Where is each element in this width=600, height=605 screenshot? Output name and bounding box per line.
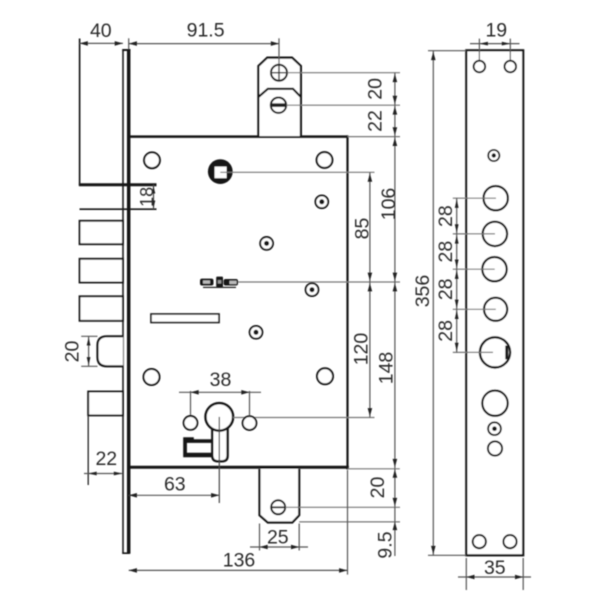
plate screw bottom [488, 422, 501, 435]
plate bottom hole right [503, 535, 516, 548]
svg-text:9.5: 9.5 [375, 531, 397, 558]
dimension 40 [80, 20, 123, 46]
dimension 120 [350, 282, 372, 418]
svg-text:22: 22 [95, 448, 117, 470]
dimension 20 (tab screws) [364, 73, 397, 106]
latch bolt [98, 336, 123, 366]
stop slot [151, 314, 219, 323]
dimension 85 [352, 172, 374, 282]
dimension 91.5 [129, 20, 279, 50]
deadbolt tooth 2 [80, 259, 123, 283]
upper guard block left edge [79, 39, 81, 186]
plate small hole [488, 441, 502, 455]
dimension 28 (1) [435, 198, 459, 234]
lock case outline [127, 135, 349, 469]
svg-text:22: 22 [364, 110, 386, 132]
auxiliary block [88, 392, 123, 416]
svg-text:20: 20 [367, 477, 389, 499]
upper guard block bottom thick line [79, 183, 157, 186]
screw B [260, 237, 273, 250]
plate hole 3 [482, 257, 506, 281]
bottom mounting tab [260, 469, 300, 523]
top tab screw with horizontal slot [271, 98, 286, 113]
svg-text:20: 20 [61, 341, 83, 363]
svg-text:85: 85 [352, 218, 374, 240]
dimension 20 (latch) [61, 336, 97, 366]
cylinder fixing screw right [243, 416, 257, 430]
dimension 106 [378, 137, 400, 282]
plate bottom hole left [473, 535, 486, 548]
plate screw top [488, 150, 499, 161]
auxiliary block edge extension [87, 415, 89, 485]
dimension 20 (case to tab screw) [367, 468, 397, 507]
top tab screw with cross slot [271, 38, 287, 81]
svg-text:40: 40 [90, 20, 112, 42]
svg-text:28: 28 [435, 205, 457, 227]
svg-text:136: 136 [223, 550, 256, 572]
cylinder centerline [218, 417, 220, 503]
hole bottom-right [317, 368, 333, 384]
svg-text:25: 25 [267, 527, 289, 549]
svg-text:63: 63 [164, 474, 186, 496]
clutch lever [200, 277, 238, 288]
svg-text:18: 18 [137, 187, 157, 207]
hole bottom-left [144, 369, 160, 385]
svg-text:35: 35 [484, 557, 506, 579]
svg-text:120: 120 [350, 333, 372, 366]
square spindle follower [208, 159, 233, 184]
extension line from slotted screw [286, 104, 400, 106]
screw A [315, 195, 328, 208]
svg-text:28: 28 [435, 241, 457, 263]
dimension 148 [375, 282, 397, 468]
dimension 38 [179, 369, 261, 416]
dimension 18 [137, 185, 157, 210]
svg-text:19: 19 [485, 19, 507, 41]
svg-text:20: 20 [364, 78, 386, 100]
dimension 28 (4) [435, 309, 459, 352]
dimension 22 (left) [84, 448, 122, 475]
hole top-left [144, 152, 160, 168]
svg-text:28: 28 [435, 320, 457, 342]
plate top hole left [474, 61, 486, 73]
svg-text:148: 148 [375, 352, 397, 385]
svg-text:91.5: 91.5 [187, 20, 225, 42]
plate hole 5 [482, 391, 507, 416]
screw C [306, 283, 319, 296]
cylinder cam bracket [183, 437, 213, 457]
extension line case top [348, 136, 401, 138]
plate hole 1 [484, 186, 508, 210]
hole top-right [317, 152, 333, 168]
dimension 136 [129, 470, 348, 575]
dimension 25 [250, 524, 308, 551]
extension line from cylinder [233, 417, 375, 419]
svg-text:106: 106 [378, 188, 400, 221]
extension line from follower [220, 171, 374, 173]
top mounting tab [258, 58, 301, 136]
plate hole 4 [484, 298, 507, 321]
extension line from bottom tab lower edge [299, 521, 400, 523]
plate cylinder hole with bolt [480, 337, 510, 367]
svg-text:38: 38 [210, 369, 232, 391]
dimension 9.5 [375, 507, 398, 558]
extension line from lever [238, 281, 400, 283]
bottom tab slotted screw [271, 500, 285, 514]
deadbolt tooth 3 [80, 296, 123, 321]
screw D [250, 326, 263, 339]
plate top hole right [505, 61, 517, 73]
plate hole 2 [483, 222, 507, 246]
dimension 35 [458, 557, 531, 590]
extension line from bottom tab screw [285, 506, 400, 508]
plate hole extension lines [453, 198, 496, 352]
extension line case bottom [348, 468, 400, 470]
dimension 356 [412, 51, 467, 556]
strike plate outline [466, 50, 523, 555]
dimension 19 [470, 19, 520, 60]
dimension 63 [129, 474, 220, 498]
dimension 22 (screw to case) [364, 105, 397, 136]
faceplate edge strip [122, 49, 130, 554]
extension line from top tab screw [287, 72, 400, 74]
deadbolt tooth 1 [80, 221, 123, 244]
svg-text:28: 28 [435, 278, 457, 300]
dimension 28 (2) [435, 234, 459, 269]
dimension 28 (3) [435, 269, 459, 309]
cylinder fixing screw left [184, 416, 198, 430]
euro cylinder keyhole [206, 403, 234, 461]
svg-text:356: 356 [412, 275, 434, 308]
18 spacer bottom line [80, 208, 157, 210]
